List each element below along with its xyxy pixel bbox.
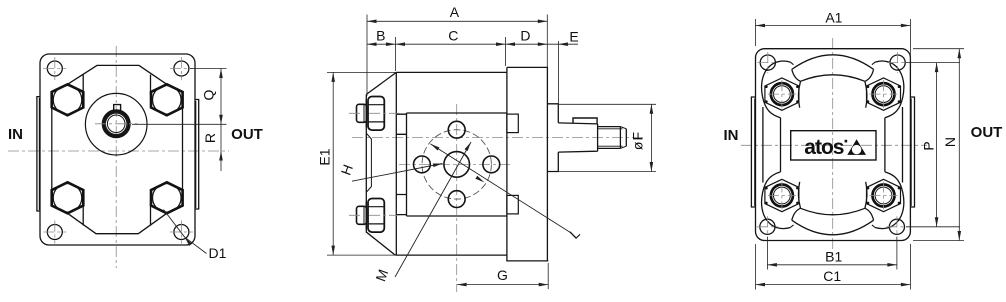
body circle (85, 93, 147, 155)
socket screw top-left (765, 78, 799, 110)
hex bolt top-right (151, 84, 183, 115)
key notch (114, 105, 121, 111)
svg-text:D: D (520, 27, 530, 43)
top bridge inner-to-lobe curves (798, 81, 800, 107)
plate/body joint line (395, 72, 397, 255)
leader H (352, 164, 443, 182)
body top bridge inner arc (801, 75, 865, 82)
svg-text:G: G (497, 267, 508, 283)
svg-text:E1: E1 (316, 148, 332, 165)
svg-text:N: N (942, 137, 958, 147)
svg-text:øF: øF (630, 131, 646, 150)
dimension D (506, 43, 548, 45)
dimension A (366, 15, 368, 97)
svg-text:C1: C1 (823, 268, 841, 284)
port tab left (751, 97, 755, 207)
pad corner notch bottom (396, 195, 406, 215)
body octagon outline (68, 65, 167, 84)
socket screw bottom-right (867, 179, 901, 211)
svg-text:R: R (202, 133, 218, 143)
pad hole top (448, 121, 465, 138)
dimension B (395, 37, 397, 71)
atos triangle (847, 139, 866, 155)
vertical centerline (115, 46, 117, 268)
dimension E1 (327, 71, 396, 73)
lobe bottom-left (762, 172, 791, 229)
dimension G (547, 263, 549, 289)
pad corner notch top (396, 114, 406, 134)
svg-text:Q: Q (200, 89, 216, 100)
shaft key (573, 118, 597, 124)
bottom bridge end caps (792, 208, 801, 220)
svg-text:IN: IN (724, 127, 739, 144)
leader D1 (164, 210, 185, 238)
dimension Q (190, 68, 227, 70)
pad horizontal centerline (399, 163, 512, 165)
top bridge end caps (792, 69, 801, 81)
atos logo plate (791, 131, 876, 160)
hex bolt top-left (52, 84, 84, 115)
corner hole top-left (47, 61, 62, 76)
body outline (396, 71, 507, 73)
vertical centerline (832, 38, 834, 256)
dimension C (505, 37, 507, 66)
corner hole top-right (174, 61, 189, 76)
pad vertical centerline (456, 104, 458, 292)
left view: pump front flange (8, 46, 263, 268)
corner hole bottom-left (760, 219, 775, 234)
right view: pump rear flange with logo (724, 10, 1003, 290)
shaft (103, 111, 129, 137)
svg-text:C: C (448, 27, 458, 43)
threaded shaft end (598, 127, 621, 149)
shaft boss (547, 104, 558, 172)
pad hole bottom (448, 191, 465, 208)
hex bolt bottom-right (151, 182, 183, 213)
tapered shaft (558, 123, 597, 152)
shaft axis centerline (352, 137, 646, 139)
body top bridge outer arc (792, 55, 874, 70)
stud+nut top (349, 97, 399, 131)
dimension oF (558, 103, 656, 105)
middle view: pump side elevation (316, 4, 656, 292)
dimension R (220, 124, 222, 171)
stud+nut bottom (349, 199, 399, 233)
dimension C1 (755, 244, 757, 290)
pad hole left (414, 156, 431, 173)
corner hole top-left (760, 55, 775, 70)
lobe bottom-right (875, 172, 904, 229)
rear plate (507, 67, 548, 261)
svg-text:atos: atos (804, 136, 844, 159)
rear plate step top (507, 114, 518, 133)
body side walls (762, 107, 764, 183)
flange plate (756, 49, 911, 241)
port tab right (910, 97, 914, 207)
lobe top-left (762, 61, 791, 118)
bolt circle (422, 130, 491, 199)
svg-text:OUT: OUT (231, 126, 263, 143)
bottom bridge notch joints (790, 225, 875, 228)
svg-text:B1: B1 (825, 249, 842, 265)
horizontal port centerline (8, 150, 229, 152)
svg-text:B: B (376, 27, 385, 43)
svg-text:A: A (450, 4, 460, 20)
horizontal centerline (741, 144, 927, 146)
hex bolt bottom-left (52, 182, 84, 213)
dimension B1 (766, 237, 768, 270)
mounting pad (406, 113, 408, 216)
top bridge notch joints (790, 62, 875, 65)
svg-text:A1: A1 (825, 10, 842, 26)
rear plate step bottom (507, 195, 518, 214)
svg-text:P: P (921, 141, 937, 150)
svg-text:D1: D1 (209, 245, 227, 261)
leader L (bolt circle diameter) (431, 144, 573, 234)
corner hole bottom-right (174, 225, 189, 240)
dimension N (913, 48, 964, 50)
plate recess between bolt bosses (366, 133, 371, 192)
corner hole bottom-left (47, 225, 62, 240)
dimension E (557, 41, 559, 122)
socket screw top-right (867, 78, 901, 110)
lobe top-right (875, 61, 904, 118)
pad center hole (444, 152, 470, 178)
front plate (366, 72, 396, 255)
port tab left (37, 97, 40, 211)
flange plate (40, 54, 195, 245)
svg-text:E: E (569, 28, 578, 44)
pad hole right (483, 156, 500, 173)
corner hole top-right (890, 55, 905, 70)
body bottom bridge inner arc (801, 208, 865, 215)
shaft crosshair (95, 123, 138, 125)
port tab right (195, 100, 199, 210)
leader M (395, 142, 471, 277)
svg-text:OUT: OUT (971, 124, 1003, 141)
svg-text:IN: IN (8, 126, 23, 143)
bottom bridge inner-to-lobe curves (798, 182, 800, 208)
socket screw bottom-left (765, 179, 799, 211)
body bottom bridge outer arc (792, 220, 874, 235)
dimension P (906, 62, 960, 64)
dimension A1 (755, 19, 757, 46)
web lines (82, 75, 84, 95)
corner hole bottom-right (889, 219, 904, 234)
